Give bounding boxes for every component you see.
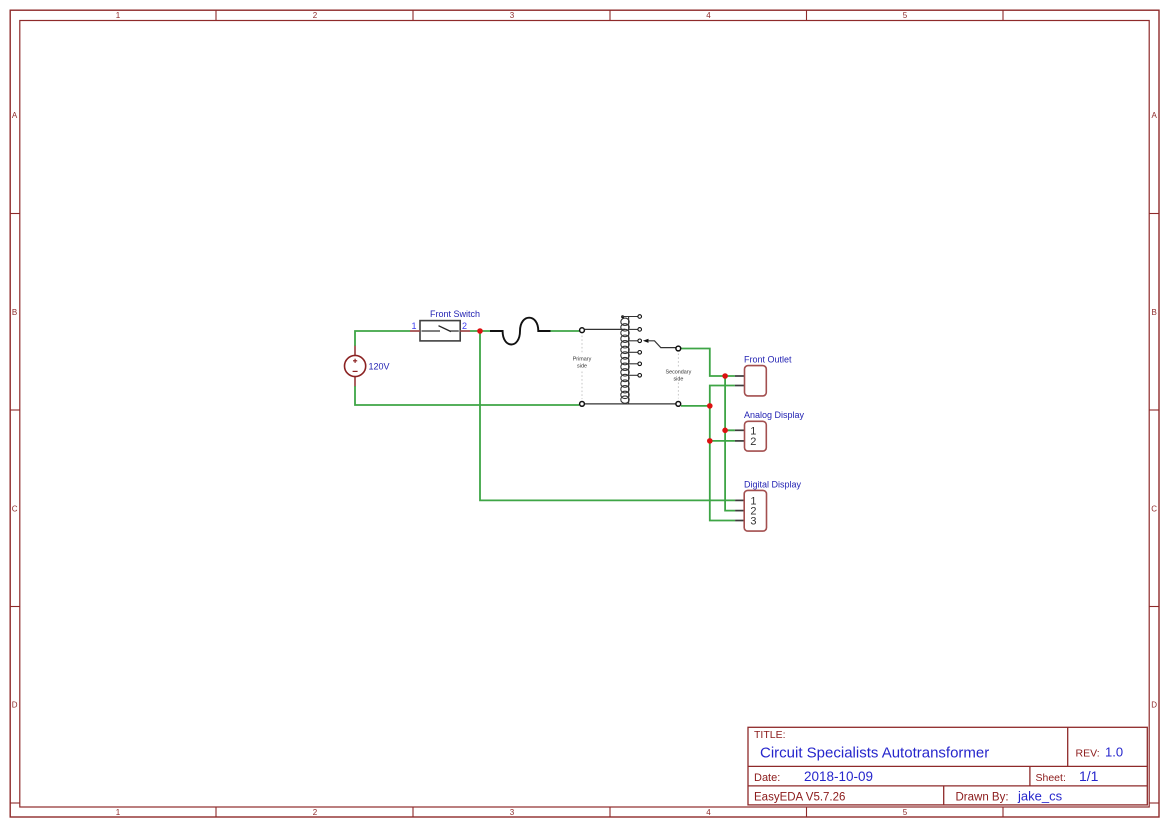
svg-text:4: 4 [706, 11, 711, 20]
tap 1 [622, 315, 642, 319]
tap 2 [629, 328, 642, 332]
svg-text:2018-10-09: 2018-10-09 [804, 769, 873, 784]
coil winding [621, 317, 629, 404]
svg-text:C: C [12, 505, 18, 514]
wiper arrow [643, 339, 676, 348]
svg-text:TITLE:: TITLE: [754, 729, 786, 741]
wire: live column down to Digital Display pin 2 [725, 430, 735, 510]
svg-text:Digital Display: Digital Display [744, 480, 802, 490]
title block [748, 727, 1147, 805]
svg-text:3: 3 [510, 808, 515, 817]
wire: secondary bottom terminal to neutral junction [681, 405, 710, 407]
svg-text:A: A [1152, 111, 1158, 120]
primary bottom terminal [580, 402, 585, 407]
junction: analog pin1 node [722, 428, 728, 434]
svg-text:5: 5 [903, 808, 908, 817]
svg-text:Drawn By:: Drawn By: [956, 791, 1009, 803]
wire: source bottom to primary bottom terminal [355, 386, 579, 405]
svg-text:2: 2 [313, 11, 318, 20]
junction: neutral rail node [707, 403, 713, 409]
svg-text:1: 1 [411, 321, 416, 331]
connector Analog Display [735, 421, 766, 451]
svg-text:3: 3 [750, 516, 756, 528]
junction: outlet pin1 node [722, 373, 728, 379]
secondary wiper terminal [676, 346, 681, 351]
connector Front Outlet [735, 366, 766, 396]
svg-text:Date:: Date: [754, 772, 780, 784]
svg-text:Circuit Specialists Autotransf: Circuit Specialists Autotransformer [760, 745, 989, 762]
secondary bottom terminal [676, 402, 681, 407]
svg-text:1: 1 [116, 808, 121, 817]
wire: neutral junction up to Front Outlet pin 2 [710, 386, 735, 406]
svg-text:Secondary: Secondary [666, 370, 692, 376]
svg-text:4: 4 [706, 808, 711, 817]
voltage source 120V [345, 346, 366, 386]
svg-text:Analog Display: Analog Display [744, 410, 805, 420]
primary feed line [585, 328, 625, 330]
wire: neutral column down to Digital Display pin 3 [710, 441, 735, 521]
svg-text:1: 1 [116, 11, 121, 20]
tap 4 [629, 351, 642, 355]
bottom rail of transformer [585, 403, 676, 405]
svg-text:side: side [673, 377, 683, 383]
secondary side annotation [666, 354, 692, 399]
svg-text:Front Outlet: Front Outlet [744, 354, 792, 364]
wire: live column down to Analog Display pin 1 [725, 376, 735, 430]
svg-text:D: D [1151, 701, 1157, 710]
wire: switch pin 2 to junction to fuse [470, 330, 490, 332]
wire: junction down and across to Digital Display pin 1 [480, 331, 735, 500]
wire: source top to switch pin 1 [355, 331, 410, 346]
coil top junction dot [621, 315, 624, 318]
svg-text:Sheet:: Sheet: [1036, 772, 1066, 784]
svg-text:jake_cs: jake_cs [1017, 789, 1063, 804]
svg-text:REV:: REV: [1076, 748, 1100, 760]
svg-text:D: D [12, 701, 18, 710]
fuse (wavy breaker element) [490, 318, 551, 345]
primary top terminal [580, 328, 585, 333]
svg-text:A: A [12, 111, 18, 120]
svg-text:EasyEDA V5.7.26: EasyEDA V5.7.26 [754, 791, 845, 803]
svg-text:3: 3 [510, 11, 515, 20]
primary side annotation [573, 336, 592, 400]
svg-text:B: B [12, 308, 17, 317]
svg-text:Front Switch: Front Switch [430, 309, 480, 319]
tap 3 (wiper tap) [629, 339, 642, 343]
svg-text:1/1: 1/1 [1079, 768, 1099, 784]
svg-text:120V: 120V [369, 361, 390, 371]
svg-text:2: 2 [750, 436, 756, 448]
wire: neutral column down to Analog Display pin 2 [710, 406, 735, 441]
svg-text:1.0: 1.0 [1105, 745, 1123, 760]
svg-text:Primary: Primary [573, 357, 592, 363]
switch Front Switch [410, 321, 470, 341]
svg-text:5: 5 [903, 11, 908, 20]
junction: analog pin2 node [707, 438, 713, 444]
autotransformer T1 [573, 315, 692, 407]
wire: fuse to primary top terminal [551, 330, 580, 332]
svg-text:C: C [1151, 505, 1157, 514]
tap 6 [629, 374, 642, 378]
svg-text:side: side [577, 364, 587, 370]
tap 5 [629, 362, 642, 366]
junction: switch output node [477, 328, 483, 334]
wire: secondary wiper terminal to Front Outlet pin 1 [681, 349, 735, 377]
svg-text:2: 2 [313, 808, 318, 817]
svg-text:2: 2 [462, 321, 467, 331]
connector Digital Display [735, 490, 766, 531]
svg-text:B: B [1152, 308, 1157, 317]
